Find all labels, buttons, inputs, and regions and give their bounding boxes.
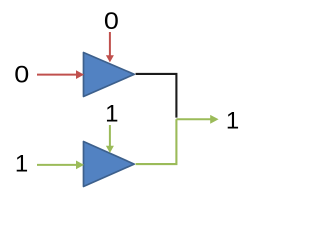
svg-text:0: 0	[104, 8, 119, 35]
svg-text:1: 1	[15, 151, 28, 178]
svg-text:1: 1	[226, 108, 239, 135]
svg-text:1: 1	[105, 101, 118, 128]
svg-text:0: 0	[14, 61, 29, 88]
